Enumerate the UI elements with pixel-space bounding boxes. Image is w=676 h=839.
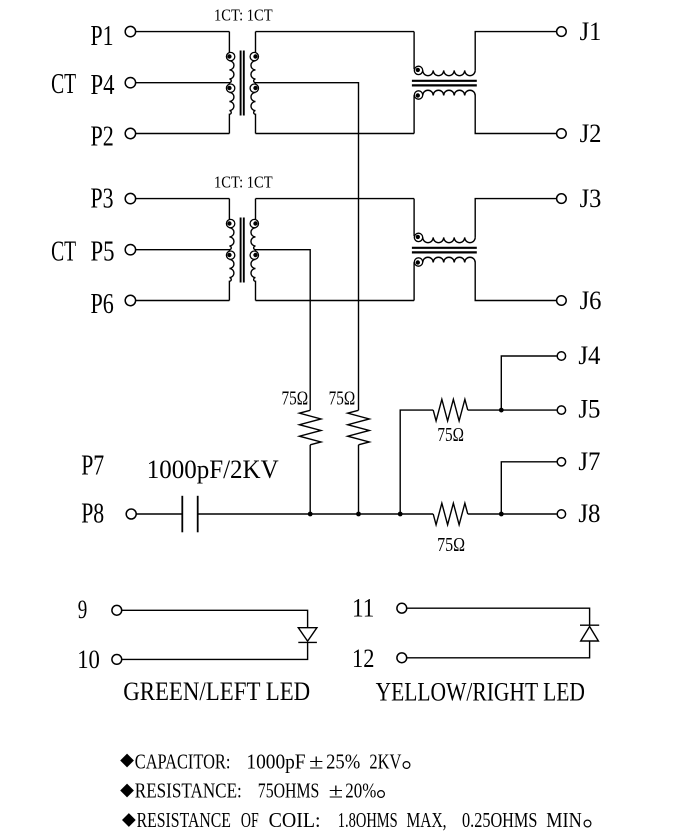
svg-text:10: 10 bbox=[77, 645, 100, 674]
svg-text:1000pF: 1000pF bbox=[246, 750, 305, 774]
svg-text:P4: P4 bbox=[91, 69, 115, 101]
svg-text:MIN: MIN bbox=[546, 808, 582, 832]
svg-text:20%: 20% bbox=[345, 778, 376, 802]
svg-text:75Ω: 75Ω bbox=[437, 424, 464, 446]
svg-text:P2: P2 bbox=[91, 120, 114, 152]
svg-text:J3: J3 bbox=[580, 183, 602, 213]
svg-text:1CT: 1CT: 1CT: 1CT bbox=[214, 6, 273, 25]
svg-text:J1: J1 bbox=[580, 16, 602, 46]
svg-text:OF: OF bbox=[241, 808, 259, 832]
svg-text:RESISTANCE: RESISTANCE bbox=[137, 808, 231, 832]
svg-text:J2: J2 bbox=[580, 118, 602, 148]
svg-text:P8: P8 bbox=[81, 498, 104, 530]
svg-text:P3: P3 bbox=[91, 183, 114, 215]
svg-text:1.8OHMS: 1.8OHMS bbox=[338, 808, 398, 832]
svg-text:J8: J8 bbox=[578, 498, 600, 528]
svg-text:GREEN/LEFT LED: GREEN/LEFT LED bbox=[123, 677, 310, 706]
svg-text:1000pF/2KV: 1000pF/2KV bbox=[147, 454, 279, 484]
svg-text:J6: J6 bbox=[580, 285, 602, 315]
svg-text:MAX,: MAX, bbox=[407, 808, 447, 832]
svg-text:±: ± bbox=[309, 750, 324, 774]
svg-text:RESISTANCE:: RESISTANCE: bbox=[135, 778, 242, 802]
svg-text:J4: J4 bbox=[578, 340, 600, 370]
svg-text:11: 11 bbox=[352, 594, 374, 623]
svg-text:75OHMS: 75OHMS bbox=[258, 778, 320, 802]
svg-text:75Ω: 75Ω bbox=[282, 388, 309, 410]
svg-text:12: 12 bbox=[352, 644, 374, 673]
svg-text:75Ω: 75Ω bbox=[329, 388, 356, 410]
svg-text:P7: P7 bbox=[81, 450, 104, 482]
svg-text:P5: P5 bbox=[91, 236, 115, 268]
svg-text:YELLOW/RIGHT LED: YELLOW/RIGHT LED bbox=[376, 678, 585, 707]
svg-text:CAPACITOR:: CAPACITOR: bbox=[135, 750, 231, 774]
svg-text:2KV: 2KV bbox=[369, 750, 401, 774]
svg-text:J5: J5 bbox=[578, 394, 600, 424]
svg-text:P1: P1 bbox=[91, 20, 114, 52]
svg-text:0.25OHMS: 0.25OHMS bbox=[462, 808, 537, 832]
svg-text:COIL:: COIL: bbox=[269, 808, 321, 832]
svg-text:9: 9 bbox=[78, 595, 88, 624]
svg-text:75Ω: 75Ω bbox=[437, 534, 465, 556]
svg-text:±: ± bbox=[329, 778, 344, 802]
svg-text:P6: P6 bbox=[91, 288, 114, 320]
svg-text:J7: J7 bbox=[578, 446, 600, 476]
svg-text:1CT: 1CT: 1CT: 1CT bbox=[214, 173, 273, 192]
svg-text:25%: 25% bbox=[326, 750, 360, 774]
svg-text:CT: CT bbox=[51, 68, 76, 100]
svg-text:CT: CT bbox=[51, 236, 76, 268]
